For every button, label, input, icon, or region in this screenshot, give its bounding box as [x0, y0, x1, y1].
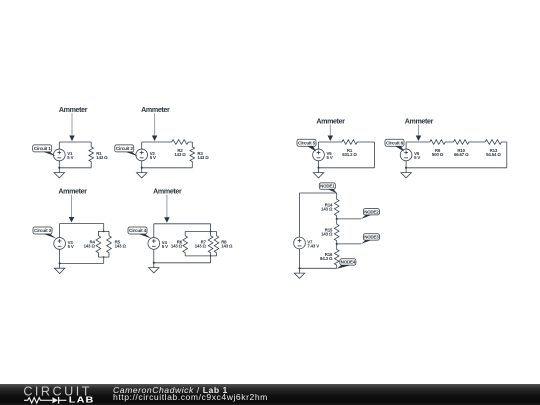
- wire C5 left bottom stub: [318, 161, 320, 168]
- resistor R9: [430, 140, 454, 145]
- svg-text:143 Ω: 143 Ω: [195, 243, 207, 248]
- node C3 top tap: [103, 231, 105, 233]
- resistor R10: [454, 140, 486, 145]
- wire C3 top tap stub: [103, 224, 105, 232]
- ground C1: [54, 168, 64, 178]
- wire C2 bottom: [142, 167, 193, 169]
- svg-text:143 Ω: 143 Ω: [221, 243, 233, 248]
- svg-text:NODE3: NODE3: [364, 235, 379, 240]
- callout NODE4: [337, 259, 356, 269]
- node NODE2 junction: [336, 218, 338, 220]
- node NODE3 junction: [336, 243, 338, 245]
- wire C6 left stub: [405, 142, 407, 149]
- svg-text:NODE2: NODE2: [364, 209, 379, 214]
- node C1 ground junction: [58, 167, 60, 169]
- wire C5 top with resistor R1b: [319, 140, 375, 145]
- svg-text:631.2 Ω: 631.2 Ω: [342, 152, 357, 157]
- node C6 ground junction: [405, 167, 407, 169]
- svg-text:Ammeter: Ammeter: [316, 117, 345, 125]
- svg-text:NODE1: NODE1: [320, 184, 335, 189]
- resistor R15: [334, 219, 339, 244]
- resistor R16: [334, 244, 339, 268]
- callout Circuit 4: [128, 227, 151, 238]
- svg-text:Circuit 5: Circuit 5: [298, 140, 316, 145]
- ammeter probe arrow: [152, 113, 158, 141]
- svg-text:143 Ω: 143 Ω: [321, 206, 333, 211]
- footer project text: [113, 387, 268, 402]
- svg-text:66.67 Ω: 66.67 Ω: [454, 152, 469, 157]
- ammeter probe arrow: [69, 113, 75, 141]
- voltage source V4: [148, 238, 160, 250]
- svg-text:5 V: 5 V: [414, 155, 420, 160]
- svg-text:Circuit 4: Circuit 4: [129, 228, 147, 233]
- svg-text:143 Ω: 143 Ω: [96, 155, 108, 160]
- svg-text:5 V: 5 V: [327, 155, 333, 160]
- svg-text:143 Ω: 143 Ω: [321, 231, 333, 236]
- ground C3: [54, 263, 64, 273]
- wire C5 bottom: [319, 167, 375, 169]
- node C7 ground junction: [298, 267, 300, 269]
- node C2 ground junction: [141, 167, 143, 169]
- svg-text:5 V: 5 V: [67, 155, 73, 160]
- CircuitLab logo: [24, 384, 99, 405]
- wire C6 left bottom stub: [405, 161, 407, 168]
- svg-text:5 V: 5 V: [162, 244, 168, 249]
- callout NODE2: [361, 209, 380, 219]
- svg-text:500 Ω: 500 Ω: [432, 152, 444, 157]
- node C4 R7 top junction: [210, 231, 212, 233]
- svg-text:Circuit 6: Circuit 6: [386, 140, 404, 145]
- callout NODE1: [319, 183, 337, 193]
- wire C2 bottom stub: [141, 161, 143, 168]
- ground C2: [137, 168, 147, 178]
- callout Circuit 6: [385, 139, 404, 151]
- wire C1 bottom: [59, 167, 91, 169]
- resistor R5: [107, 231, 112, 257]
- svg-text:143 Ω: 143 Ω: [174, 152, 186, 157]
- voltage source V5: [313, 149, 325, 161]
- wire NODE2 tap: [337, 218, 362, 220]
- wire C6 right: [506, 142, 508, 168]
- svg-text:Ammeter: Ammeter: [141, 106, 170, 114]
- footer bar: [0, 384, 540, 405]
- wire C1 left stub: [58, 142, 60, 149]
- wire C4 top: [154, 223, 211, 225]
- ground C6: [401, 168, 411, 178]
- wire C3 top: [60, 223, 104, 225]
- wire NODE3 tap: [337, 243, 362, 245]
- resistor R8: [214, 232, 219, 256]
- resistor R4: [96, 231, 101, 257]
- callout Circuit 5: [297, 139, 316, 151]
- wire C4 parallel top bus: [185, 231, 216, 233]
- svg-text:143 Ω: 143 Ω: [84, 243, 96, 248]
- wire C7 bottom: [300, 267, 337, 269]
- wire C4 bottom: [154, 262, 211, 264]
- callout Circuit 3: [33, 227, 56, 238]
- node C3 bottom tap: [103, 256, 105, 258]
- svg-text:143 Ω: 143 Ω: [197, 155, 209, 160]
- svg-text:Circuit 2: Circuit 2: [116, 146, 134, 151]
- wire C3 bottom: [60, 262, 104, 264]
- node C4 R7 bottom junction: [210, 255, 212, 257]
- wire C3 parallel top bus: [98, 230, 109, 232]
- wire C4 parallel bottom bus: [185, 255, 216, 257]
- wire C7 left bottom stub: [299, 249, 301, 269]
- resistor R3: [190, 142, 195, 168]
- svg-text:Ammeter: Ammeter: [58, 187, 87, 195]
- ammeter probe arrow: [416, 125, 422, 141]
- ground C5: [313, 168, 323, 178]
- svg-text:143 Ω: 143 Ω: [115, 243, 127, 248]
- svg-text:143 Ω: 143 Ω: [171, 243, 183, 248]
- wire C3 left top stub: [59, 224, 61, 238]
- callout Circuit 1: [33, 145, 56, 156]
- wire C1 bottom stub: [58, 161, 60, 168]
- svg-text:NODE4: NODE4: [341, 260, 356, 265]
- svg-text:7.43 V: 7.43 V: [307, 243, 319, 248]
- svg-text:Ammeter: Ammeter: [153, 187, 182, 195]
- svg-text:Ammeter: Ammeter: [405, 117, 434, 125]
- node C5 ground junction: [317, 167, 319, 169]
- wire C3 left bottom stub: [59, 249, 61, 263]
- svg-text:Circuit 3: Circuit 3: [34, 228, 52, 233]
- voltage source V6: [400, 149, 412, 161]
- wire C5 right: [374, 142, 376, 168]
- wire C1 top: [59, 141, 91, 143]
- wire C7 left vertical: [299, 193, 301, 238]
- ammeter probe arrow: [164, 195, 170, 223]
- svg-text:84.3 Ω: 84.3 Ω: [320, 256, 333, 261]
- voltage source V3: [54, 238, 66, 250]
- node C4 ground junction: [153, 262, 155, 264]
- ammeter probe arrow: [328, 125, 334, 141]
- resistor R13: [485, 140, 507, 145]
- resistor R14: [334, 193, 339, 219]
- voltage source V2: [136, 149, 148, 161]
- svg-text:54.54 Ω: 54.54 Ω: [486, 152, 501, 157]
- resistor R6: [183, 232, 188, 256]
- svg-text:Circuit 1: Circuit 1: [34, 146, 52, 151]
- callout Circuit 2: [115, 145, 138, 156]
- wire C6 bottom: [406, 167, 507, 169]
- svg-text:5 V: 5 V: [150, 155, 156, 160]
- node C3 ground junction: [59, 262, 61, 264]
- wire C4 left top stub: [153, 224, 155, 238]
- svg-text:LAB: LAB: [69, 396, 95, 405]
- wire C2 top with resistor R2: [142, 140, 193, 145]
- svg-text:Ammeter: Ammeter: [59, 106, 88, 114]
- wire C5 left stub: [318, 142, 320, 149]
- callout NODE3: [361, 234, 380, 244]
- wire C4 left bottom stub: [153, 249, 155, 263]
- svg-text:5 V: 5 V: [68, 244, 74, 249]
- resistor R7: [208, 224, 213, 263]
- ground C4: [149, 263, 159, 273]
- wire C6 top left segment: [406, 141, 430, 143]
- wire C3 parallel bottom bus: [98, 256, 109, 258]
- resistor R1: [89, 142, 94, 168]
- wire C2 left stub: [141, 142, 143, 149]
- ground C7: [294, 268, 304, 278]
- wire C3 bottom tap stub: [103, 257, 105, 263]
- voltage source V1: [53, 149, 65, 161]
- ammeter probe arrow: [69, 195, 75, 223]
- voltage source V7: [294, 237, 306, 249]
- wire C7 top: [300, 192, 337, 194]
